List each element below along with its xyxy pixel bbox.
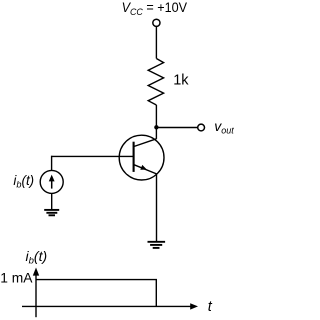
svg-text:1k: 1k — [173, 73, 189, 89]
svg-text:1 mA: 1 mA — [0, 271, 33, 286]
pulse waveform — [36, 280, 156, 307]
graph y-axis — [35, 274, 37, 318]
vout terminal — [198, 124, 205, 131]
wire Vcc to resistor — [155, 27, 157, 59]
transistor emitter arrow — [140, 165, 147, 170]
wire base horizontal — [52, 155, 134, 157]
Vcc terminal — [153, 19, 160, 26]
wire resistor to collector — [155, 105, 157, 139]
svg-text:ib(t): ib(t) — [26, 248, 48, 267]
node junction dot — [154, 125, 158, 129]
ground (source) — [44, 210, 59, 215]
current source I1 circle — [40, 170, 63, 193]
svg-text:t: t — [208, 299, 213, 315]
transistor emitter diagonal — [134, 165, 157, 174]
ground (emitter) — [148, 242, 166, 248]
wire source to base corner — [51, 156, 53, 171]
transistor Q1 circle — [119, 135, 164, 180]
wire emitter down — [156, 174, 158, 241]
transistor base bar — [133, 142, 135, 172]
wire source to ground — [51, 193, 53, 209]
svg-text:ib(t): ib(t) — [13, 173, 34, 190]
current source arrow — [51, 181, 53, 189]
svg-text:vout: vout — [214, 118, 234, 136]
wire node to vout terminal — [157, 127, 198, 129]
resistor R 1k — [148, 59, 163, 106]
svg-text:VCC = +10V: VCC = +10V — [122, 0, 188, 18]
graph x-axis — [22, 305, 191, 307]
transistor collector diagonal — [134, 139, 157, 147]
